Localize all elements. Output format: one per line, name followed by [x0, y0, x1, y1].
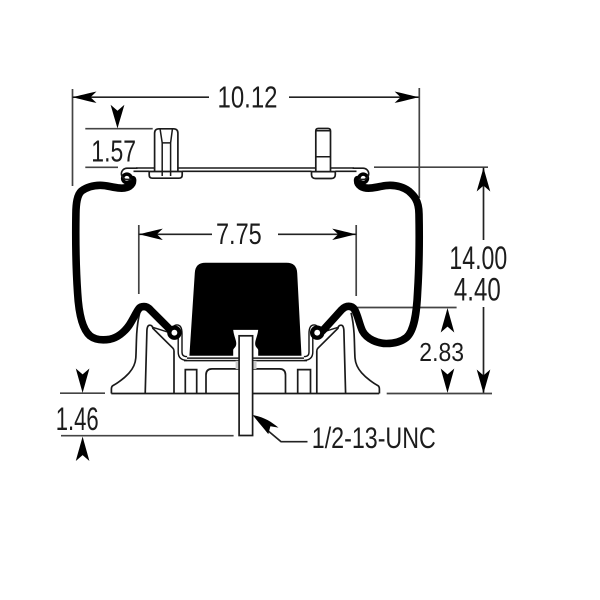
dim 2.83 top extension line	[353, 307, 457, 309]
bumper plate line top	[185, 357, 306, 359]
dim 7.75 line	[139, 233, 212, 235]
arrow 10.12 left	[73, 92, 97, 103]
bottom-right extension line (mounting surface)	[387, 393, 492, 395]
left clamp edge line	[152, 327, 168, 332]
bellows right side	[320, 180, 419, 344]
dim 1.46 lower extension line	[61, 435, 234, 437]
dim 10.12 left extension line	[72, 89, 74, 186]
dim 10.12 right extension line	[418, 88, 420, 198]
gray hidden bands beside bolt	[236, 361, 240, 369]
dim 14.00 top extension line	[374, 166, 488, 168]
arrow 1.57 down	[111, 105, 125, 129]
arrow 1.46 up (below)	[76, 437, 90, 462]
arrow 14.00 up	[477, 168, 491, 192]
arrow 7.75 left	[139, 229, 163, 240]
bolt 1/2-13-UNC	[239, 336, 253, 436]
left rib	[185, 370, 196, 394]
dim 7.75 right extension line	[355, 225, 357, 296]
arrow 2.83 up	[441, 308, 455, 333]
arrow 2.83 down	[441, 369, 455, 394]
top plate lower line	[134, 170, 357, 172]
arrow 14.00 down	[477, 370, 491, 394]
left stud body	[155, 129, 178, 172]
arrow 1.46 down (above)	[76, 369, 90, 394]
leader arrowhead	[253, 415, 279, 434]
left stud taper and inner lines	[160, 129, 172, 176]
dim 1.57 lower extension line	[85, 166, 118, 168]
bumper plate line bottom	[184, 360, 307, 362]
left wing hook, face edge and inner edge	[145, 325, 174, 393]
right rib	[298, 370, 311, 394]
left wing outer sweep to foot	[111, 313, 139, 394]
dim 14.00 / 4.40 line	[483, 168, 485, 241]
bolt collar (spool)	[233, 330, 258, 356]
arrow 10.12 right	[395, 92, 419, 103]
arrow 7.75 right	[332, 229, 356, 240]
right wing hook, face edge and inner edge	[317, 325, 346, 393]
center platform	[206, 369, 286, 394]
svg-text:2.83: 2.83	[419, 337, 464, 367]
dim 1.57 upper extension line	[85, 128, 152, 130]
bellows left side	[76, 180, 174, 340]
right top bead spiral	[357, 172, 369, 184]
right wing outer sweep to foot	[351, 313, 379, 394]
right clamp edge line	[323, 327, 339, 332]
right plate rolled-edge curl	[353, 168, 369, 179]
svg-text:1.46: 1.46	[56, 401, 99, 437]
right stud flange	[312, 172, 336, 179]
svg-text:4.40: 4.40	[454, 272, 501, 308]
dim 7.75 left extension line	[138, 225, 140, 294]
left stud flange	[149, 172, 182, 179]
left plate rolled-edge curl	[121, 168, 137, 179]
left pivot bead	[167, 326, 181, 340]
dim 1.46 upper extension line	[60, 392, 105, 394]
rubber bumper	[189, 263, 301, 356]
svg-text:10.12: 10.12	[218, 80, 278, 115]
top plate upper line	[136, 167, 354, 169]
bumper plate left lip (white channel)	[174, 327, 187, 359]
bumper plate right lip (white channel)	[304, 327, 317, 359]
left top bead spiral	[121, 172, 133, 184]
svg-text:1/2-13-UNC: 1/2-13-UNC	[312, 422, 436, 455]
svg-text:7.75: 7.75	[216, 218, 262, 251]
right stud body	[316, 129, 331, 172]
leader line 1/2-13-UNC	[267, 430, 308, 442]
right pivot bead	[310, 326, 324, 340]
svg-text:1.57: 1.57	[91, 133, 136, 168]
base mounting line	[111, 393, 379, 395]
right stud cap and mid lines	[316, 131, 331, 157]
dim 10.12 line	[73, 96, 210, 98]
